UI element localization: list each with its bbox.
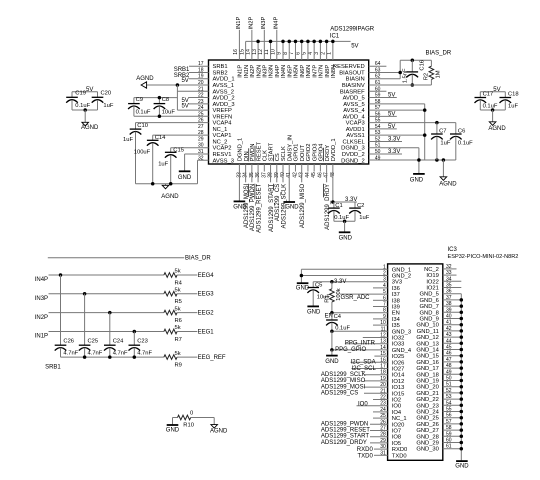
junction on 5V bus at pin 2 [325, 40, 329, 44]
svg-text:CLK: CLK [263, 150, 269, 161]
ground GND pin41 [283, 201, 295, 203]
ground AGND at R10 [211, 425, 218, 429]
svg-text:GND: GND [410, 178, 424, 184]
wire pin26 VCAP4 rail [136, 122, 209, 124]
resistor R7 5k [164, 329, 177, 334]
wire BIASOUT/BIASIN vertical to bias rail [399, 60, 401, 78]
svg-text:GND_15: GND_15 [416, 354, 439, 360]
wire top pin 4 stub [313, 41, 315, 60]
junction on 5V bus at pin 3 [319, 40, 323, 44]
wire pin18 SRB2 [189, 71, 209, 73]
svg-text:IN5P: IN5P [287, 65, 293, 78]
svg-text:NC_2: NC_2 [424, 267, 439, 273]
ground GND at R10 [167, 424, 179, 426]
wire pin17 SRB1 [189, 65, 209, 67]
svg-text:SRB1: SRB1 [174, 67, 190, 73]
svg-text:1uF: 1uF [158, 162, 168, 168]
svg-text:5V: 5V [388, 111, 395, 117]
svg-text:5k: 5k [175, 306, 181, 312]
junction pin14 [330, 348, 334, 352]
junction pin57 [423, 108, 427, 112]
svg-text:7: 7 [289, 52, 295, 55]
junction on 5V bus at pin 6 [300, 40, 304, 44]
svg-text:44: 44 [305, 172, 311, 178]
svg-text:ADS1299_DRDY: ADS1299_DRDY [321, 440, 367, 446]
wire pin38 to GND bus [443, 305, 462, 307]
junction C14 bottom [151, 182, 155, 186]
capacitor C14 100uF [152, 135, 154, 140]
junction pin53 [423, 133, 427, 137]
wire pin40 to GND bus [443, 318, 462, 320]
wire pin30 RXD0 [374, 448, 388, 450]
svg-text:I38: I38 [392, 298, 400, 304]
wire pin20 ADS1299_MOSI [364, 386, 388, 388]
svg-text:42: 42 [292, 172, 298, 178]
junction pin51 [460, 385, 464, 389]
svg-text:R10: R10 [183, 423, 194, 429]
ground AGND under C7/C6 [440, 177, 447, 181]
svg-text:GND_21: GND_21 [416, 391, 439, 397]
wire pin13 IO33 PPG_INTR [345, 343, 388, 345]
wire top pin 2 stub [326, 41, 328, 60]
svg-text:3: 3 [314, 52, 320, 55]
wire pin25 stub [373, 417, 388, 419]
junction AGND drop [442, 158, 446, 162]
wire pin55 VCAP3 to C7/C6 top rail [369, 122, 456, 124]
svg-text:ADS1299_START: ADS1299_START [321, 434, 369, 440]
junction C15 bottom [169, 182, 173, 186]
svg-text:2: 2 [320, 52, 326, 55]
wire IC3 GND bus vertical [460, 294, 462, 461]
svg-text:C15: C15 [173, 147, 184, 153]
svg-text:GND_18: GND_18 [416, 372, 439, 378]
svg-text:ADS1299_PWDN: ADS1299_PWDN [250, 184, 256, 231]
junction pin58 [460, 428, 464, 432]
capacitor C1 0.1uF [333, 202, 335, 208]
svg-text:5V: 5V [181, 78, 188, 84]
svg-text:GND_8: GND_8 [420, 310, 439, 316]
svg-text:4.7nF: 4.7nF [88, 351, 103, 357]
svg-text:AGND: AGND [488, 126, 506, 132]
ground GND under C4 chain [326, 355, 338, 357]
wire top pin 7 stub [294, 41, 296, 60]
svg-text:5V: 5V [181, 103, 188, 109]
wire C19/C20 top rail [72, 91, 98, 93]
junction bottom rail to AGND [83, 108, 87, 112]
junction pin56 [460, 416, 464, 420]
svg-text:C9: C9 [136, 97, 143, 103]
svg-text:GPIO1: GPIO1 [294, 144, 300, 162]
junction EN/C4 [330, 311, 334, 315]
wire pin52 CLKSEL to 3.3V [369, 140, 402, 142]
svg-text:R5: R5 [175, 299, 182, 305]
wire C19/C20 bottom rail [72, 109, 98, 111]
wire pin32 AVSS_3 down to AGND rail [198, 159, 209, 161]
wire pin51 DGND_3 to GND [369, 147, 419, 149]
svg-text:GND_13: GND_13 [416, 341, 439, 347]
wire pin31 TXD0 [374, 454, 388, 456]
svg-text:GND: GND [166, 428, 180, 434]
svg-text:GND_29: GND_29 [416, 441, 439, 447]
svg-text:4.7nF: 4.7nF [137, 351, 152, 357]
wire pin19 ADS1299_MISO [364, 380, 388, 382]
svg-text:GND_30: GND_30 [416, 447, 439, 453]
svg-text:4.7nF: 4.7nF [63, 351, 78, 357]
wire pin17 I2C_SCL [352, 368, 388, 370]
junction C8 bottom [158, 114, 162, 118]
svg-text:AVSS_3: AVSS_3 [213, 158, 234, 164]
svg-text:3.3V: 3.3V [388, 149, 400, 155]
svg-text:RXD0: RXD0 [357, 447, 374, 453]
svg-text:I37: I37 [392, 292, 400, 298]
wire pin4 stub [373, 287, 388, 289]
junction filter cap tap IN2P [108, 311, 112, 315]
svg-text:5k: 5k [175, 269, 181, 275]
wire pin46 to GND bus [443, 355, 462, 357]
wire pin53 to GND bus [443, 398, 462, 400]
svg-text:BIASIN: BIASIN [346, 77, 365, 83]
svg-text:ADS1299_START: ADS1299_START [269, 183, 275, 231]
svg-text:GND_25: GND_25 [416, 416, 439, 422]
svg-text:IO2: IO2 [392, 398, 401, 404]
wire top pin 13 stub [257, 41, 259, 60]
svg-text:IO32: IO32 [392, 336, 405, 342]
wire pin54 AVDD1 to 5V [369, 128, 397, 130]
wire down to C24 [109, 313, 111, 346]
wire SRB1/EEG_REF rail [61, 356, 164, 358]
svg-text:13: 13 [252, 49, 258, 55]
junction on 5V bus at pin 1 [331, 40, 335, 44]
svg-text:BIAS_DR: BIAS_DR [185, 256, 211, 262]
svg-text:0.1uF: 0.1uF [458, 141, 473, 147]
svg-text:5k: 5k [175, 287, 181, 293]
wire 5V bus over IC1 top (IN_N pins tied to 5V) [246, 40, 351, 42]
svg-text:GND_11: GND_11 [417, 329, 439, 335]
junction on 5V bus at pin 7 [294, 40, 298, 44]
svg-text:RESERVED: RESERVED [333, 64, 365, 70]
wire IN4P row [49, 274, 164, 276]
svg-text:10: 10 [270, 49, 276, 55]
svg-text:AVDD1: AVDD1 [346, 127, 365, 133]
wire pin51 to GND bus [443, 386, 462, 388]
ground GND pin33 [234, 200, 246, 202]
capacitor C9 0.1uF [133, 98, 135, 104]
wire pin9 stub [373, 318, 388, 320]
svg-text:IN1P: IN1P [35, 334, 48, 340]
wire C17/C18 top rail [480, 91, 505, 93]
svg-text:IO13: IO13 [392, 385, 405, 391]
wire pin56 AVDD_4 to 5V [369, 115, 397, 117]
wire pin39 to GND bus [443, 311, 462, 313]
wire pin21 AVSS_2 [177, 90, 208, 92]
resistor R9 5k [164, 355, 177, 360]
svg-text:IN4N: IN4N [281, 65, 287, 78]
svg-text:AGND: AGND [439, 182, 457, 188]
svg-text:IN7P: IN7P [312, 65, 318, 78]
svg-text:IN6N: IN6N [306, 65, 312, 78]
junction pin46 [460, 354, 464, 358]
wire pin37 stub [263, 164, 265, 172]
wire IN2P input to pin 14 [251, 30, 253, 60]
svg-text:GND_2: GND_2 [392, 274, 411, 280]
svg-text:SCLK: SCLK [281, 146, 287, 161]
junction C16 top [411, 59, 415, 63]
svg-text:VCAP4: VCAP4 [213, 121, 233, 127]
svg-text:EN: EN [392, 311, 400, 317]
svg-text:3V3: 3V3 [392, 280, 402, 286]
wire pin23 AVDD_3 to 5V [189, 103, 209, 105]
ground GND under C5 [307, 305, 319, 307]
wire pin14 GND_4 [332, 349, 388, 351]
wire pin16 I2C_SDA [351, 361, 388, 363]
wire pin24 VREFP [177, 109, 208, 111]
wire pin22 stub [373, 399, 388, 401]
capacitor C18 1uF [504, 92, 506, 98]
ground AGND below C19/C20 [82, 122, 89, 126]
svg-text:BIASINV: BIASINV [342, 83, 365, 89]
svg-text:IN3P: IN3P [261, 16, 267, 29]
svg-text:IO21: IO21 [426, 286, 439, 292]
wire GND_1/GND_2 vertical [300, 269, 302, 283]
ground AGND under C17/C18 [489, 122, 496, 126]
svg-text:C2: C2 [357, 203, 364, 209]
junction GND drop [417, 158, 421, 162]
wire AGND stub on rail [165, 184, 167, 186]
svg-text:5V: 5V [388, 93, 395, 99]
svg-text:IN2P: IN2P [248, 16, 254, 29]
wire top pin 1 stub [332, 41, 334, 60]
svg-text:BIASREF: BIASREF [340, 89, 365, 95]
svg-text:IN2N: IN2N [256, 65, 262, 78]
capacitor C5 10uF [312, 282, 314, 288]
svg-text:IN3P: IN3P [263, 65, 269, 78]
svg-text:27: 27 [198, 124, 204, 130]
resistor R2 1M [430, 60, 432, 66]
svg-text:DVDD_2: DVDD_2 [342, 152, 365, 158]
svg-text:5k: 5k [175, 325, 181, 331]
svg-text:16: 16 [233, 49, 239, 55]
svg-text:GND_3: GND_3 [392, 329, 411, 335]
wire pin28 VCAP1 rail [153, 134, 209, 136]
svg-text:VREFP: VREFP [213, 108, 232, 114]
svg-text:ADS1299IPAGR: ADS1299IPAGR [330, 27, 375, 33]
wire AGND drop under C7 [442, 160, 444, 177]
wire pin25 VREFN / C9 C8 bottom rail [134, 115, 209, 117]
svg-text:IN5N: IN5N [294, 65, 300, 78]
capacitor C2 1uF [354, 202, 356, 208]
svg-text:C6: C6 [458, 129, 465, 135]
junction pin40 [460, 317, 464, 321]
junction R1 top [330, 280, 334, 284]
svg-text:PPG_INTR: PPG_INTR [345, 341, 376, 347]
junction pin53 [460, 397, 464, 401]
junction C7 bottom [435, 158, 439, 162]
wire to EEG_REF label [177, 356, 197, 358]
junction cap bottom [83, 355, 87, 359]
wire pin20 AVSS_1 to AGND [147, 84, 209, 86]
resistor R1 10k (vertical) [331, 282, 333, 289]
svg-text:ADS1299_MOSI: ADS1299_MOSI [244, 183, 250, 228]
svg-text:IN4P: IN4P [275, 65, 281, 78]
IC U1: IC1 ADS1299IPAGR body [209, 60, 369, 164]
svg-text:DGND_2: DGND_2 [341, 158, 365, 164]
svg-text:BIASOUT: BIASOUT [339, 70, 365, 76]
ground GND for IC3 bus [456, 460, 468, 462]
svg-text:GND_5: GND_5 [420, 292, 439, 298]
svg-text:ADS1299_RESET: ADS1299_RESET [321, 428, 370, 434]
svg-text:DGND_3: DGND_3 [341, 146, 365, 152]
junction on 5V bus at pin 9 [281, 40, 285, 44]
svg-text:0.1uF: 0.1uF [334, 215, 349, 221]
wire pin64 RESERVED stub [369, 65, 387, 67]
svg-text:1uF: 1uF [359, 215, 369, 221]
svg-text:IN6P: IN6P [300, 65, 306, 78]
wire pin42 stub [294, 164, 296, 172]
svg-text:CS: CS [275, 153, 281, 161]
svg-text:IN2P: IN2P [250, 65, 256, 78]
wire pin26 ADS1299_PWDN [370, 423, 388, 425]
svg-text:AVDD_5: AVDD_5 [343, 96, 365, 102]
svg-text:12: 12 [258, 49, 264, 55]
wire IN1P row [49, 331, 164, 333]
wire R10 to AGND [191, 417, 215, 419]
junction pin43 [460, 335, 464, 339]
svg-text:4: 4 [308, 52, 314, 55]
svg-text:5V: 5V [388, 124, 395, 130]
svg-text:GND_20: GND_20 [416, 385, 439, 391]
wire BIAS_DR net [48, 257, 184, 259]
svg-text:I2C_SDA: I2C_SDA [351, 359, 376, 365]
svg-text:4.7nF: 4.7nF [113, 351, 128, 357]
junction pin20/pin21 vertical [176, 83, 180, 87]
wire pin52 to GND bus [443, 392, 462, 394]
wire pin41 to GND bus [443, 324, 462, 326]
svg-text:IO8: IO8 [392, 435, 401, 441]
svg-text:ADS1299_MOSI: ADS1299_MOSI [321, 384, 366, 390]
svg-text:IO33: IO33 [392, 342, 405, 348]
wire pin35 stub [443, 287, 462, 289]
svg-text:IO26: IO26 [392, 360, 405, 366]
svg-text:C26: C26 [63, 339, 74, 345]
svg-text:0.1uF: 0.1uF [335, 326, 350, 332]
ground AGND (left arrow) for AVSS pins [141, 82, 147, 88]
junction pin59 [460, 435, 464, 439]
svg-text:14: 14 [246, 49, 252, 55]
svg-text:BIAS_DR: BIAS_DR [426, 50, 452, 56]
svg-text:C7: C7 [439, 129, 446, 135]
svg-text:IC3: IC3 [448, 247, 458, 253]
wire bias top rail [400, 59, 431, 61]
wire pin34 ADS1299_MOSI [245, 164, 247, 182]
junction on 5V bus at pin 13 [256, 40, 260, 44]
svg-text:IO27: IO27 [392, 367, 405, 373]
svg-text:DRDY: DRDY [325, 145, 331, 162]
wire pin61 BIASINV to R2 bottom [369, 84, 432, 86]
svg-text:IO0: IO0 [392, 404, 401, 410]
wire pin58 AVSS_5 [369, 103, 425, 105]
wire pin47 to GND bus [443, 361, 462, 363]
svg-text:GND_22: GND_22 [416, 397, 439, 403]
wire to EEG2 label [177, 312, 197, 314]
wire pin36 ADS1299_RESET [257, 164, 259, 182]
svg-text:IN8N: IN8N [331, 65, 337, 78]
svg-text:AVSS_2: AVSS_2 [213, 89, 234, 95]
wire down to GND [344, 221, 346, 232]
wire pin2 GND_2 [301, 275, 387, 277]
wire down to AGND [492, 110, 494, 122]
wire C9/C8 top rail [134, 97, 178, 99]
wire pin50 to GND bus [443, 380, 462, 382]
svg-text:GND_28: GND_28 [416, 434, 439, 440]
svg-text:GND_26: GND_26 [416, 422, 439, 428]
svg-text:AGND: AGND [161, 194, 179, 200]
svg-text:GND: GND [455, 464, 469, 470]
svg-text:EEG_REF: EEG_REF [198, 355, 226, 361]
svg-text:GND_7: GND_7 [420, 304, 439, 310]
svg-text:10uF: 10uF [162, 109, 176, 115]
svg-text:3.3V: 3.3V [388, 136, 400, 142]
svg-text:C25: C25 [88, 339, 99, 345]
wire pin28 ADS1299_START [370, 436, 388, 438]
svg-text:DVDD_1: DVDD_1 [331, 138, 337, 161]
svg-text:SRB2: SRB2 [213, 70, 228, 76]
svg-text:3.3V: 3.3V [334, 279, 346, 285]
svg-text:TXD0: TXD0 [357, 453, 373, 459]
svg-text:EEG1: EEG1 [198, 329, 215, 335]
junction on 5V bus at pin 4 [312, 40, 316, 44]
svg-text:DGND_1: DGND_1 [238, 138, 244, 162]
svg-text:VCAP2: VCAP2 [213, 146, 232, 152]
svg-text:5: 5 [302, 52, 308, 55]
svg-text:R6: R6 [175, 318, 182, 324]
wire pin27 ADS1299_RESET [370, 430, 388, 432]
svg-text:1M: 1M [436, 70, 442, 78]
svg-text:GND_27: GND_27 [416, 428, 439, 434]
svg-text:IO12: IO12 [392, 379, 405, 385]
junction pin50 [460, 379, 464, 383]
svg-text:IN1N: IN1N [244, 65, 250, 78]
wire AVSS vertical chain [424, 104, 426, 160]
junction pin2 [300, 274, 304, 278]
svg-text:AVDD_3: AVDD_3 [213, 102, 235, 108]
svg-text:AVSS1: AVSS1 [346, 133, 364, 139]
junction pin48 [460, 366, 464, 370]
ground GND pins1-2 [297, 282, 309, 284]
svg-text:I34: I34 [392, 317, 401, 323]
svg-text:R9: R9 [175, 363, 182, 369]
svg-text:GND_1: GND_1 [392, 267, 411, 273]
svg-text:C19: C19 [75, 91, 86, 97]
svg-text:ADS1299_MISO: ADS1299_MISO [321, 378, 366, 384]
svg-text:IN4P: IN4P [273, 16, 279, 29]
svg-text:C14: C14 [155, 135, 166, 141]
wire pin21 ADS1299_CS [364, 392, 388, 394]
svg-text:C24: C24 [113, 339, 124, 345]
wire top pin 11 stub [270, 41, 272, 60]
svg-text:GND_14: GND_14 [416, 348, 439, 354]
wire top pin 15 stub [245, 41, 247, 60]
capacitor C7 1uF [436, 123, 438, 134]
svg-text:IN8P: IN8P [325, 65, 331, 78]
svg-text:R1: R1 [325, 295, 331, 302]
capacitor C24 4.7nF [109, 344, 111, 346]
wire pin32 NC_2 stub [443, 268, 457, 270]
svg-text:C18: C18 [508, 92, 519, 98]
wire pin23 IO0 [357, 405, 388, 407]
svg-text:GND: GND [296, 286, 310, 292]
svg-text:6: 6 [295, 52, 301, 55]
svg-text:IO20: IO20 [392, 422, 405, 428]
